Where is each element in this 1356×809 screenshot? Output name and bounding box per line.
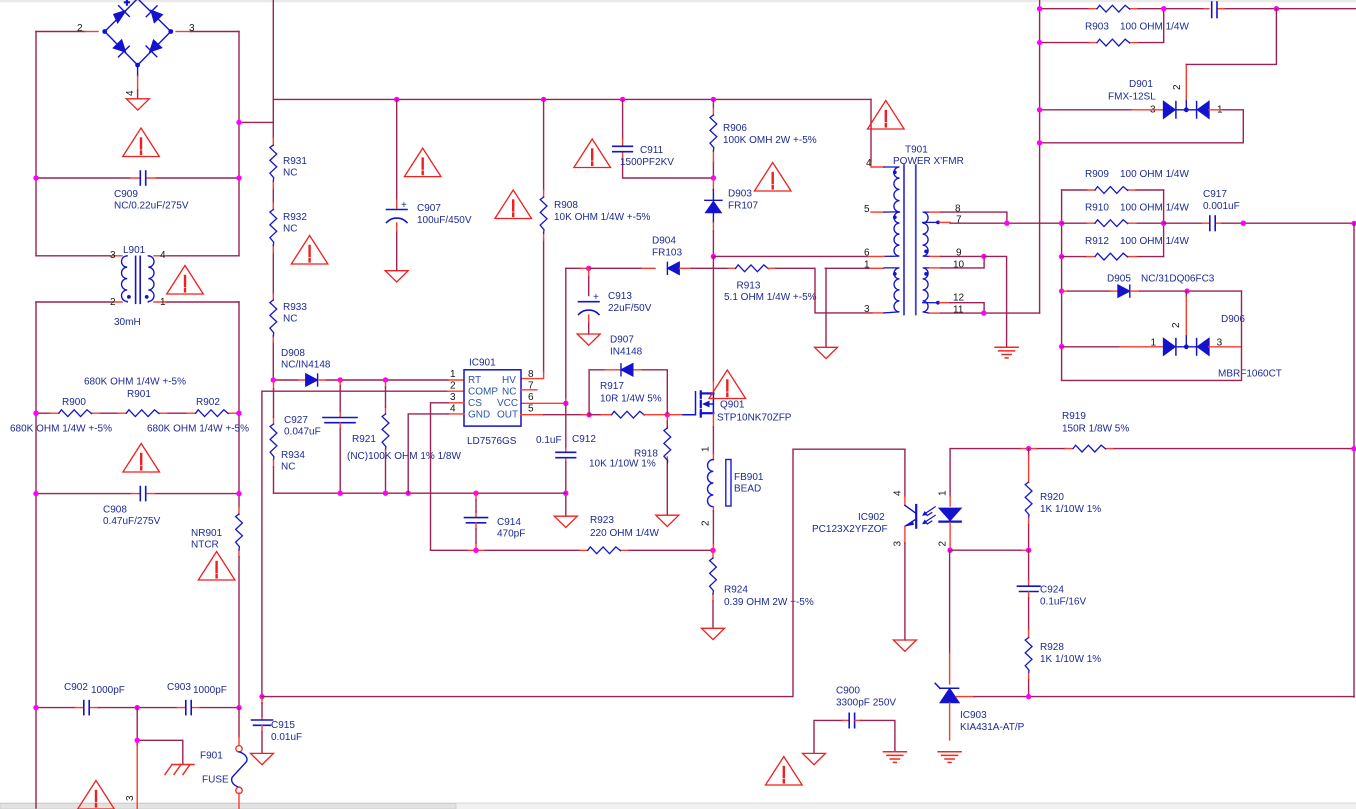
resistor R931 [270,145,277,181]
svg-text:R912: R912 [1085,236,1109,247]
svg-text:3: 3 [450,392,456,403]
svg-text:C917: C917 [1203,189,1227,200]
svg-text:LD7576GS: LD7576GS [467,436,517,447]
bottom scrollbar thumb [0,804,456,809]
wire drain vertical [712,257,714,382]
warning triangle below bridge [123,128,160,157]
wire CS pin3 path [448,402,464,404]
svg-text:C915: C915 [271,720,295,731]
svg-text:NC: NC [283,314,297,325]
svg-text:4: 4 [160,250,166,261]
wire VCC corner to D904 line [566,267,581,269]
T901 core [904,165,916,315]
svg-text:3: 3 [189,23,195,34]
wire pin10 hook [930,267,942,269]
wire 9/10 node to secondary ground [984,256,1007,346]
wire opto pin2 to divider [950,549,1022,551]
wire R903 top line [1040,8,1356,10]
wire pin11 line [930,312,942,314]
node dots C908 line [33,491,38,496]
wire pin9 line [930,255,942,257]
svg-text:Q901: Q901 [720,400,745,411]
node dot C912 bottom [563,491,568,496]
wire C902/C903 line [36,707,239,709]
svg-text:C909: C909 [114,189,138,200]
capacitor C924 [1028,550,1030,580]
capacitor top right [1212,2,1217,18]
capacitor C911 [613,146,633,151]
wire T901 pin1 to ground [825,267,870,269]
svg-text:R928: R928 [1040,642,1064,653]
svg-text:220 OHM 1/4W: 220 OHM 1/4W [590,528,659,539]
svg-text:R920: R920 [1040,492,1064,503]
diode D907 loop [589,370,667,415]
resistor R903 bottom [1097,39,1130,46]
svg-text:0.001uF: 0.001uF [1203,201,1240,212]
wire lower box left vertical [35,302,37,808]
svg-text:R924: R924 [724,585,748,596]
node dots RT line [271,377,276,382]
svg-text:NC: NC [281,462,295,473]
diode D904 [667,262,679,274]
svg-text:2: 2 [938,541,949,547]
svg-text:680K OHM 1/4W +-5%: 680K OHM 1/4W +-5% [147,424,249,435]
node dot snubber [711,175,716,180]
wire R908 branch / HV to IC pin8 [543,99,545,372]
svg-text:10K 1/10W 1%: 10K 1/10W 1% [589,459,656,470]
svg-text:2: 2 [110,297,116,308]
power flag below R918 [656,515,679,526]
wire source to FB901 [712,413,714,427]
shunt regulator IC903 [949,550,951,653]
svg-text:NC/31DQ06FC3: NC/31DQ06FC3 [1141,274,1215,285]
resistor R932 [270,210,277,246]
svg-text:100 OHM 1/4W: 100 OHM 1/4W [1120,236,1189,247]
svg-text:HV: HV [502,375,516,386]
wire pin8 hook [930,211,942,213]
svg-text:680K OHM 1/4W +-5%: 680K OHM 1/4W +-5% [10,424,112,435]
svg-text:FB901: FB901 [734,472,764,483]
T901 primary windings [884,167,900,313]
IC902 pin3 emitter to ground [904,526,906,543]
wire lower box top (L901 bottom line) [36,301,239,303]
capacitor C902 [84,701,89,715]
svg-text:NC/IN4148: NC/IN4148 [281,360,331,371]
svg-text:12: 12 [953,293,965,304]
resistor R906 [710,115,717,151]
svg-text:0.047uF: 0.047uF [284,427,321,438]
svg-text:R910: R910 [1085,203,1109,214]
svg-text:5: 5 [528,404,534,415]
node dot chassis branch [135,738,140,743]
resistor R912 [1062,256,1164,258]
wire R906 branch [712,99,714,178]
svg-text:PC123X2YFZOF: PC123X2YFZOF [812,524,888,535]
node dots C902 line [33,705,38,710]
svg-text:680K OHM 1/4W +-5%: 680K OHM 1/4W +-5% [84,377,186,388]
svg-text:100 OHM 1/4W: 100 OHM 1/4W [1120,203,1189,214]
svg-text:FMX-12SL: FMX-12SL [1108,92,1156,103]
pin7 NC stub [521,389,537,391]
earth ground secondary [995,347,1018,358]
resistor R908 [540,197,547,233]
wire C909 line [36,177,239,179]
warning triangle left of C907 [404,148,441,177]
resistor R920 [1028,449,1030,455]
svg-text:1K 1/10W 1%: 1K 1/10W 1% [1040,504,1101,515]
IC902 LED pin2 [949,523,951,547]
svg-text:4: 4 [866,158,872,169]
svg-text:+: + [124,0,130,9]
svg-text:3: 3 [110,250,116,261]
warning triangle bottom-left (clipped) [78,781,115,809]
svg-text:C912: C912 [572,434,596,445]
svg-text:100 OHM 1/4W: 100 OHM 1/4W [1120,169,1189,180]
node dot VCC pin6 [563,401,568,406]
capacitor C927 branch [339,380,341,417]
svg-text:R901: R901 [127,389,151,400]
svg-text:R934: R934 [281,450,305,461]
bottom scrollbar track [0,803,1356,809]
power flag below R924 [702,628,725,639]
wire pin3 drop to bottom edge [136,740,138,746]
svg-text:2: 2 [77,23,83,34]
wire pin6 line to drain node [713,255,868,257]
wire VCC vertical [565,268,567,399]
svg-text:0.47uF/275V: 0.47uF/275V [103,516,161,527]
wire R903 bottom line [1040,9,1164,43]
warning triangle right of D903 [754,163,791,192]
svg-text:C908: C908 [103,505,127,516]
svg-text:1: 1 [160,297,166,308]
resistor R934 branch [273,380,275,424]
svg-text:T901: T901 [905,145,928,156]
svg-text:VCC: VCC [497,398,518,409]
svg-text:0.39 OHM 2W +-5%: 0.39 OHM 2W +-5% [724,597,814,608]
diode D908 [306,374,318,386]
earth ground IC903 [938,752,961,763]
svg-text:R933: R933 [283,302,307,313]
thermistor NR901 [238,507,240,557]
svg-text:C900: C900 [836,686,860,697]
resistor R901 [126,410,159,417]
svg-text:KIA431A-AT/P: KIA431A-AT/P [960,722,1025,733]
svg-text:3: 3 [892,541,903,547]
fuse F901 [238,708,240,737]
transistor Q901 [701,391,714,416]
ferrite bead FB901 [708,460,732,507]
wire mid drop to chassis ground [137,708,183,764]
svg-text:1: 1 [701,446,712,452]
svg-text:R903: R903 [1085,22,1109,33]
svg-text:NC: NC [502,387,516,398]
bridge pin 2 stub [85,31,98,33]
wire pin7 line [940,221,951,223]
svg-text:RT: RT [468,375,481,386]
svg-text:0.01uF: 0.01uF [271,732,302,743]
wire D904 line [589,267,642,269]
wire block left vertical [1061,190,1063,380]
svg-text:CS: CS [468,398,482,409]
svg-text:R923: R923 [590,515,614,526]
svg-text:C927: C927 [284,415,308,426]
svg-text:C911: C911 [640,145,664,156]
svg-text:4: 4 [450,404,456,415]
warning triangle left of C911 [574,139,611,168]
top gray strip [0,0,1356,2]
wire lower box right vertical upper [238,302,240,507]
svg-text:4: 4 [125,90,136,96]
svg-text:100 OHM 1/4W: 100 OHM 1/4W [1120,22,1189,33]
svg-text:C914: C914 [497,517,521,528]
capacitor C903 [186,701,191,715]
node dots C909 line [33,175,38,180]
capacitor C908 [140,487,145,501]
node dots R903 [1037,6,1042,11]
svg-text:R909: R909 [1085,169,1109,180]
svg-text:30mH: 30mH [114,317,141,328]
warning triangle below NR901 [198,552,235,581]
gate lead [667,414,683,416]
wire AC box bottom (L901 top line) [36,255,239,257]
svg-text:+: + [593,292,599,303]
svg-text:100uF/450V: 100uF/450V [417,215,472,226]
wire ground line y493 [274,492,566,494]
svg-text:BEAD: BEAD [734,484,761,495]
svg-text:+: + [401,200,407,211]
svg-text:5: 5 [864,204,870,215]
capacitor C915 branch [261,697,263,720]
svg-text:R908: R908 [554,200,578,211]
warning triangle above Q901 [709,370,746,399]
svg-text:8: 8 [955,204,961,215]
svg-text:1000pF: 1000pF [193,685,227,696]
svg-text:1K 1/10W 1%: 1K 1/10W 1% [1040,654,1101,665]
wire R913 to T901 pin3 [776,268,872,313]
resistor R900 [59,410,92,417]
svg-text:D904: D904 [652,236,676,247]
wire D901 pin2 up [1185,100,1187,108]
power flag C900 left [803,753,826,764]
svg-text:FR107: FR107 [728,201,758,212]
svg-text:GND: GND [468,410,490,421]
bridge pin 3 stub [176,31,190,33]
resistor R919 [1073,445,1106,452]
warning triangle above C908 [123,444,160,473]
svg-text:NC: NC [283,168,297,179]
wire OUT pin5 line [521,414,544,416]
IC902 pin4 collector [904,449,906,496]
svg-text:D905: D905 [1107,274,1131,285]
power flag below C915 [251,753,274,764]
svg-text:0.1uF: 0.1uF [536,435,562,446]
svg-text:150R 1/8W 5%: 150R 1/8W 5% [1062,424,1129,435]
node dot drain/pin6 [711,254,716,259]
svg-text:R931: R931 [283,156,307,167]
svg-text:R900: R900 [62,397,86,408]
svg-text:COMP: COMP [468,387,498,398]
svg-text:10K OHM 1/4W +-5%: 10K OHM 1/4W +-5% [554,212,651,223]
wire VCC to C912 [565,403,567,448]
IC902 LED [939,508,960,521]
bridge rectifier [102,0,173,76]
svg-text:4: 4 [892,490,903,496]
T901 phase dots [893,170,897,174]
svg-text:470pF: 470pF [497,529,525,540]
resistor R909 [1062,189,1164,191]
svg-text:1: 1 [864,260,870,271]
resistor R921 branch [385,380,387,414]
svg-text:NC/0.22uF/275V: NC/0.22uF/275V [114,201,189,212]
resistor R928 [1028,630,1030,638]
power flag aux ground [815,347,838,358]
svg-text:2: 2 [1172,84,1183,90]
wire HV bus y99.4 [273,98,871,100]
svg-text:2: 2 [701,520,712,526]
capacitor C909 [140,171,145,185]
svg-text:C902: C902 [64,682,88,693]
capacitor C912 [556,452,576,457]
inductor L901 common mode choke [121,256,154,303]
svg-text:11: 11 [953,305,964,316]
svg-text:OUT: OUT [497,410,518,421]
wire C908 line [36,493,239,495]
svg-text:R906: R906 [723,123,747,134]
svg-text:10: 10 [953,260,965,271]
IC902 phototransistor [905,505,935,528]
resistor R917 [612,411,645,418]
resistor R924 [712,550,714,601]
svg-text:C907: C907 [417,203,441,214]
diode D903 [712,178,714,190]
svg-text:IC901: IC901 [469,358,496,369]
node dot R924 top [710,548,715,553]
svg-text:5.1 OHM 1/4W +-5%: 5.1 OHM 1/4W +-5% [724,292,817,303]
svg-text:6: 6 [528,392,534,403]
warning triangle near pin4 [868,101,905,130]
svg-text:R921: R921 [352,434,376,445]
wire pin12 hook [940,302,951,304]
svg-text:IC902: IC902 [858,512,885,523]
wire lower box right vertical lower [238,557,240,708]
svg-text:22uF/50V: 22uF/50V [608,303,652,314]
svg-text:C903: C903 [167,682,191,693]
node dots HV bus [394,97,399,102]
power flag below C907 [385,271,408,282]
wire AC box top-left [36,31,85,33]
svg-text:(NC)100K OHM 1% 1/8W: (NC)100K OHM 1% 1/8W [347,451,461,462]
T901 pin5 stub [871,211,884,213]
power flag below bridge [126,99,149,110]
chassis ground [165,765,194,775]
earth ground C900 right [883,752,906,763]
warning triangle right of L901 [167,266,204,295]
svg-text:8: 8 [528,369,534,380]
svg-text:NR901: NR901 [191,528,223,539]
resistor R910 [1062,222,1164,224]
wire GND pin4 path [448,413,464,415]
svg-text:FUSE: FUSE [202,775,229,786]
svg-text:C913: C913 [608,291,632,302]
wire right edge vertical [1353,223,1355,697]
capacitor C914 branch [475,493,477,517]
resistor R923 [588,547,621,554]
wire D906 loop right/bottom [1062,291,1242,380]
svg-text:D901: D901 [1129,79,1153,90]
node dots R900 line [33,411,38,416]
wire D908/RT line [273,379,448,381]
warning triangle left of R908 [495,190,532,219]
wire R919 line [950,448,1354,450]
wire HV vertical x273 [272,0,274,380]
svg-text:2: 2 [1171,322,1182,328]
svg-text:IC903: IC903 [960,710,987,721]
wire AC box top-right [190,31,239,33]
node dot C913 tap [586,266,591,271]
svg-text:STP10NK70ZFP: STP10NK70ZFP [717,413,792,424]
svg-text:FR103: FR103 [652,248,682,259]
capacitor C913 electrolytic [588,268,590,277]
power flag below C912 [554,516,577,527]
resistor R903 top [1097,5,1130,12]
svg-text:R932: R932 [283,212,307,223]
wire primary return loop [262,449,905,696]
svg-text:F901: F901 [200,751,223,762]
svg-text:2: 2 [450,381,456,392]
svg-text:NTCR: NTCR [191,540,219,551]
svg-text:R913: R913 [737,281,761,292]
svg-text:D903: D903 [728,189,752,200]
svg-text:D908: D908 [281,348,305,359]
wire AC box left vertical [35,32,37,256]
wire C911 branch [623,99,714,178]
svg-text:R902: R902 [196,397,220,408]
resistor R933 [270,300,277,336]
node dots ground line [338,491,343,496]
svg-text:3: 3 [125,795,136,801]
wire link box to HV rail [239,121,273,123]
svg-text:1500PF2KV: 1500PF2KV [620,157,674,168]
wire R900 line [36,412,239,414]
capacitor C917 [1164,222,1202,224]
warning triangle bottom right [766,757,803,786]
IC902 LED pin1 [949,449,951,496]
svg-text:1000pF: 1000pF [91,685,125,696]
wire C907 branch [396,99,398,270]
svg-text:NC: NC [283,224,297,235]
power flag IC902 pin3 [893,640,916,651]
wire AC box right vertical [238,32,240,256]
svg-text:1: 1 [938,490,949,496]
T901 secondary windings [923,212,937,313]
svg-text:D907: D907 [610,335,634,346]
wire R923 line [431,549,714,551]
svg-text:0.1uF/16V: 0.1uF/16V [1040,597,1086,608]
svg-text:3: 3 [864,304,870,315]
svg-text:3300pF 250V: 3300pF 250V [836,698,896,709]
svg-text:C924: C924 [1040,585,1064,596]
svg-text:100K OMH 2W +-5%: 100K OMH 2W +-5% [723,135,817,146]
resistor R913 [736,265,769,272]
resistor R902 [196,410,229,417]
wire HV bus to pin4 [870,99,872,162]
wire IC903 ref line [956,696,974,698]
wire C917 output [1222,222,1354,224]
power flag below C913 [577,334,600,345]
wire COMP line + C915 vertical [262,391,448,696]
warning triangle below R932 [291,236,328,265]
wire block right vertical [1163,190,1165,257]
